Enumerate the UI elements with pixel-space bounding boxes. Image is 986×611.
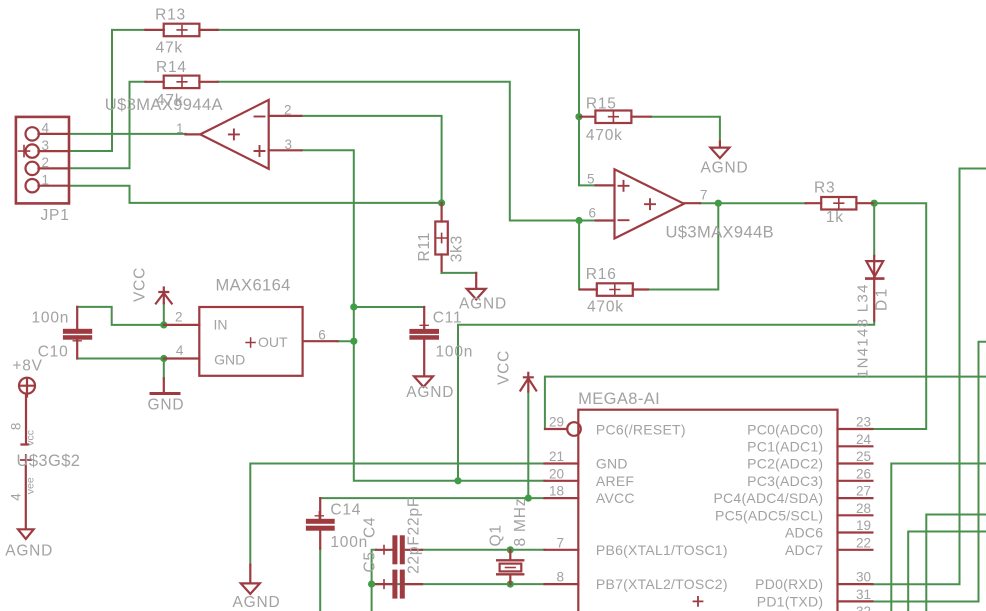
svg-text:PC5(ADC5/SCL): PC5(ADC5/SCL) <box>715 507 823 523</box>
svg-text:AGND: AGND <box>406 384 454 401</box>
svg-text:PB6(XTAL1/TOSC1): PB6(XTAL1/TOSC1) <box>596 542 728 558</box>
svg-text:6: 6 <box>589 206 597 221</box>
svg-text:PD1(TXD): PD1(TXD) <box>757 593 824 609</box>
svg-text:PD0(RXD): PD0(RXD) <box>755 576 823 592</box>
svg-text:19: 19 <box>856 518 871 533</box>
svg-text:29: 29 <box>549 415 564 430</box>
svg-text:470k: 470k <box>586 127 623 144</box>
svg-text:vcc: vcc <box>25 430 37 446</box>
svg-text:32: 32 <box>856 604 871 611</box>
svg-text:2: 2 <box>42 155 50 170</box>
svg-text:3: 3 <box>285 137 293 152</box>
svg-text:47k: 47k <box>156 39 183 56</box>
svg-text:AGND: AGND <box>459 296 507 313</box>
svg-text:4: 4 <box>42 121 50 136</box>
svg-text:R14: R14 <box>156 59 187 76</box>
svg-text:PB7(XTAL2/TOSC2): PB7(XTAL2/TOSC2) <box>596 576 728 592</box>
svg-text:26: 26 <box>856 466 871 481</box>
svg-text:PC6(/RESET): PC6(/RESET) <box>596 421 686 437</box>
svg-text:18: 18 <box>549 484 564 499</box>
svg-text:Q1: Q1 <box>488 524 505 546</box>
svg-text:7: 7 <box>556 535 564 550</box>
svg-text:27: 27 <box>856 484 871 499</box>
svg-text:U$3MAX944B: U$3MAX944B <box>666 223 775 241</box>
svg-text:2: 2 <box>175 309 183 324</box>
svg-text:+8V: +8V <box>12 357 42 374</box>
svg-text:PC0(ADC0): PC0(ADC0) <box>747 421 823 437</box>
svg-text:1N4148 L34: 1N4148 L34 <box>855 283 872 378</box>
svg-text:C5: C5 <box>361 551 378 572</box>
svg-text:AGND: AGND <box>233 594 281 611</box>
svg-text:22: 22 <box>856 535 871 550</box>
svg-text:30: 30 <box>856 570 871 585</box>
svg-text:U$3MAX9944A: U$3MAX9944A <box>105 96 223 114</box>
svg-text:PC2(ADC2): PC2(ADC2) <box>747 456 823 472</box>
svg-text:PC4(ADC4/SDA): PC4(ADC4/SDA) <box>713 490 823 506</box>
svg-text:24: 24 <box>856 432 872 447</box>
svg-text:GND: GND <box>214 351 245 367</box>
svg-text:R13: R13 <box>155 7 186 24</box>
svg-text:ADC6: ADC6 <box>785 525 823 541</box>
svg-text:8: 8 <box>9 423 24 431</box>
svg-text:2: 2 <box>284 103 292 118</box>
svg-text:5: 5 <box>587 171 595 186</box>
svg-text:1k: 1k <box>826 209 844 226</box>
svg-text:1: 1 <box>176 121 184 136</box>
svg-text:28: 28 <box>856 501 871 516</box>
svg-text:R16: R16 <box>586 266 617 283</box>
svg-text:470k: 470k <box>587 299 624 316</box>
svg-text:C14: C14 <box>330 501 361 518</box>
svg-text:vee: vee <box>25 477 37 494</box>
svg-text:25: 25 <box>856 449 871 464</box>
svg-text:JP1: JP1 <box>41 207 70 224</box>
svg-text:8 MHz: 8 MHz <box>512 498 529 547</box>
svg-text:C11: C11 <box>433 310 463 327</box>
svg-text:VCC: VCC <box>496 350 513 385</box>
svg-text:AGND: AGND <box>701 160 749 177</box>
svg-text:PC1(ADC1): PC1(ADC1) <box>747 439 823 455</box>
svg-text:MAX6164: MAX6164 <box>216 277 291 295</box>
svg-text:IN: IN <box>214 317 228 333</box>
svg-text:8: 8 <box>556 570 564 585</box>
svg-text:VCC: VCC <box>132 267 149 302</box>
svg-text:R11: R11 <box>416 232 433 262</box>
svg-text:C4: C4 <box>361 517 378 538</box>
svg-text:21: 21 <box>549 449 564 464</box>
svg-text:PC3(ADC3): PC3(ADC3) <box>747 473 823 489</box>
svg-text:20: 20 <box>549 466 564 481</box>
svg-text:OUT: OUT <box>258 334 288 350</box>
svg-text:3k3: 3k3 <box>449 235 466 262</box>
svg-text:4: 4 <box>9 493 24 501</box>
svg-text:4: 4 <box>176 343 184 358</box>
svg-text:AREF: AREF <box>596 473 634 489</box>
svg-text:AVCC: AVCC <box>596 490 635 506</box>
svg-text:1: 1 <box>42 172 50 187</box>
svg-text:100n: 100n <box>436 344 474 361</box>
svg-text:7: 7 <box>700 187 708 202</box>
svg-text:ADC7: ADC7 <box>785 542 823 558</box>
svg-text:GND: GND <box>148 397 185 414</box>
svg-text:6: 6 <box>318 327 326 342</box>
svg-text:3: 3 <box>42 138 50 153</box>
svg-text:31: 31 <box>856 587 871 602</box>
svg-text:U$3G$2: U$3G$2 <box>17 452 81 470</box>
svg-text:MEGA8-AI: MEGA8-AI <box>578 390 660 408</box>
svg-text:GND: GND <box>596 456 628 472</box>
svg-text:R15: R15 <box>586 96 617 113</box>
svg-text:100n: 100n <box>32 310 70 327</box>
svg-text:22pF22pF: 22pF22pF <box>405 497 422 574</box>
svg-text:D1: D1 <box>874 286 891 311</box>
svg-text:R3: R3 <box>814 180 835 197</box>
svg-text:AGND: AGND <box>5 543 53 560</box>
svg-text:23: 23 <box>856 415 871 430</box>
